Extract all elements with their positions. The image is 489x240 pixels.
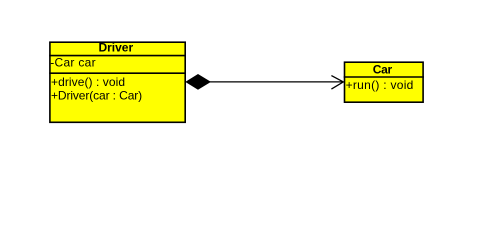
svg-text:-Car car: -Car car bbox=[50, 56, 96, 70]
svg-text:+drive() : void: +drive() : void bbox=[51, 75, 125, 89]
open arrowhead at Car end bbox=[331, 76, 343, 90]
class Car box bbox=[345, 62, 424, 102]
class Driver box bbox=[50, 42, 185, 122]
aggregation diamond at Driver end bbox=[186, 75, 210, 90]
svg-text:+run() : void: +run() : void bbox=[346, 78, 414, 92]
svg-text:Driver: Driver bbox=[98, 41, 133, 55]
Driver attribute/method separator bbox=[49, 72, 186, 74]
svg-text:+Driver(car : Car): +Driver(car : Car) bbox=[51, 89, 142, 103]
Car name/body separator bbox=[344, 76, 424, 78]
Driver name/attribute separator bbox=[49, 55, 186, 57]
association wire Driver to Car bbox=[208, 81, 343, 83]
svg-text:Car: Car bbox=[373, 63, 393, 77]
